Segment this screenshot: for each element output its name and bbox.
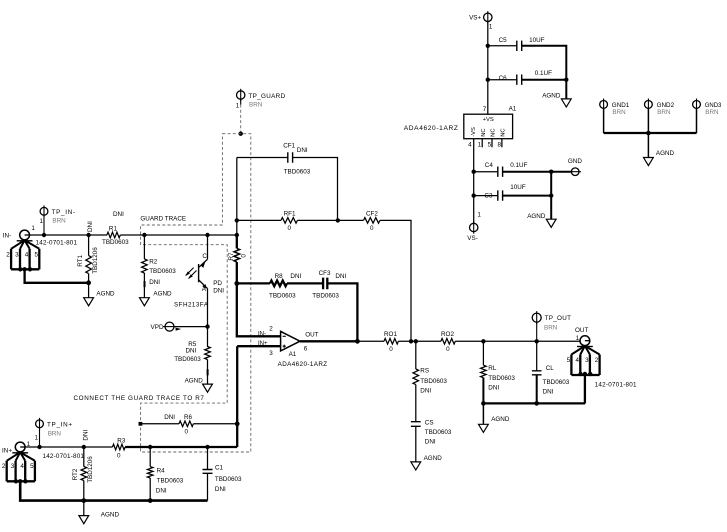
svg-text:OUT: OUT	[305, 331, 318, 338]
junction IN- node / R7	[235, 233, 239, 237]
resistor RT1	[86, 256, 92, 274]
capacitor C6	[517, 75, 522, 85]
svg-text:AGND: AGND	[185, 378, 204, 385]
test point GND1	[600, 101, 608, 109]
wire GND bus	[604, 132, 697, 134]
wire IN+ vertical to op-amp	[236, 346, 238, 447]
wire output to RS	[415, 341, 417, 369]
svg-text:DNI: DNI	[149, 279, 160, 286]
resistor R5	[205, 347, 211, 360]
junction RT1 on rail	[86, 233, 90, 237]
wire IN- node to R7	[236, 235, 238, 248]
wire RS to CS	[415, 385, 417, 422]
stub pin 1 of A1	[481, 139, 483, 148]
stub TP_GUARD	[240, 99, 242, 104]
svg-text:1: 1	[478, 142, 482, 149]
wire R4 to gnd bus	[149, 478, 151, 501]
resistor RO1	[384, 339, 398, 345]
svg-text:BRN: BRN	[52, 217, 66, 224]
connector OUT 142-0701-801	[580, 336, 590, 346]
svg-text:DNI: DNI	[87, 221, 94, 232]
wire CL to output gnd bus	[536, 375, 538, 404]
svg-text:AGND: AGND	[527, 213, 546, 220]
wire RT1 to AGND bus	[88, 274, 90, 283]
svg-text:TBD0603: TBD0603	[425, 429, 452, 436]
resistor RL	[481, 365, 487, 377]
svg-text:R2: R2	[149, 259, 158, 266]
svg-text:DNI: DNI	[297, 147, 308, 154]
svg-text:CS: CS	[425, 419, 434, 426]
wire CF1 rail right	[293, 158, 338, 221]
svg-text:5: 5	[488, 142, 492, 149]
svg-text:5: 5	[30, 463, 34, 470]
ground AGND power top	[561, 99, 571, 107]
wire to AGND IN+	[83, 501, 85, 516]
connector IN+ 142-0701-801	[15, 442, 25, 452]
junction RF1 / CF1 / CF2	[336, 218, 340, 222]
junction R6 / IN+ vertical	[235, 421, 240, 426]
svg-text:GND2: GND2	[657, 102, 675, 109]
junction RT2 / IN+ shell	[81, 498, 86, 503]
capacitor CF3	[323, 278, 327, 290]
svg-text:TBD0603: TBD0603	[215, 476, 242, 483]
junction TP_IN+ on rail	[37, 445, 41, 449]
svg-text:DNI: DNI	[488, 384, 499, 391]
wire CF3 to output	[327, 283, 357, 341]
resistor R4	[147, 467, 153, 478]
ground AGND of R5	[203, 384, 213, 392]
junction OUT shell a	[578, 372, 582, 376]
svg-text:TP_GUARD: TP_GUARD	[248, 93, 285, 100]
svg-text:RO2: RO2	[441, 331, 454, 338]
svg-text:BRN: BRN	[612, 109, 626, 116]
svg-text:C: C	[202, 253, 207, 260]
svg-text:RS: RS	[420, 368, 429, 375]
wire OUT to RO1	[357, 340, 384, 342]
svg-text:BRN: BRN	[705, 109, 719, 116]
svg-text:GUARD TRACE: GUARD TRACE	[140, 216, 186, 223]
svg-text:A1: A1	[509, 106, 517, 113]
svg-text:GND1: GND1	[612, 102, 630, 109]
wire R2 to AGND	[143, 273, 145, 298]
capacitor C3	[498, 190, 503, 200]
svg-text:RT1: RT1	[77, 255, 84, 267]
test point GND3	[693, 101, 701, 109]
resistor R2	[142, 259, 148, 273]
wire to R8	[237, 282, 270, 284]
svg-text:4: 4	[20, 463, 24, 470]
svg-text:0.1UF: 0.1UF	[535, 70, 552, 77]
svg-text:RT2: RT2	[72, 468, 79, 480]
svg-text:AGND: AGND	[424, 455, 443, 462]
stub pin 8 of A1	[501, 139, 503, 148]
svg-text:R8: R8	[275, 273, 284, 280]
svg-text:2: 2	[6, 251, 10, 258]
svg-text:DNI: DNI	[213, 287, 224, 294]
svg-text:DNI: DNI	[290, 273, 301, 280]
svg-text:C3: C3	[484, 192, 493, 199]
resistor RO2	[441, 339, 455, 345]
junction PD on rail	[205, 233, 209, 237]
wire rail to PD cathode	[207, 235, 209, 259]
wire IN- rail left	[29, 234, 107, 236]
svg-text:0: 0	[370, 225, 374, 232]
svg-text:A1: A1	[289, 351, 297, 358]
node -VS / C4	[472, 170, 476, 174]
svg-text:TBD0603: TBD0603	[420, 378, 447, 385]
wire feedback left vertical	[236, 158, 238, 221]
junction IN- shell a	[18, 267, 22, 271]
svg-text:SFH213FA: SFH213FA	[174, 302, 209, 309]
resistor RF1	[281, 218, 297, 224]
junction OUT shell c	[588, 372, 592, 376]
wire R5 to AGND	[207, 360, 209, 384]
wire RO1 to RO2	[398, 340, 441, 342]
junction R4 on gnd bus	[148, 498, 153, 503]
wire to AGND IN-	[88, 283, 90, 298]
svg-text:AGND: AGND	[656, 150, 675, 157]
svg-text:PD: PD	[213, 280, 222, 287]
svg-text:142-0701-801: 142-0701-801	[36, 239, 78, 246]
capacitor CF1	[288, 152, 293, 162]
wire VPD to PD anode	[174, 326, 207, 328]
ground AGND of RT2	[79, 516, 89, 524]
ground AGND of CS	[411, 462, 421, 470]
test point TP_IN+	[36, 420, 44, 428]
op-amp U-A1 power pins box	[464, 114, 513, 139]
capacitor C4	[498, 167, 503, 177]
node -VS / C3	[472, 193, 476, 197]
wire GND1 down	[603, 109, 605, 134]
wire rail to RT2	[83, 447, 85, 467]
wire to C3	[474, 195, 498, 197]
disconnect mark under R2	[144, 281, 146, 287]
wire RF1 rail left	[237, 219, 281, 221]
wire to C6	[488, 79, 517, 81]
capacitor CL	[532, 371, 542, 375]
junction CF2 on output	[409, 339, 413, 343]
guard trace dashed ring	[141, 134, 251, 452]
svg-text:0: 0	[446, 346, 450, 353]
junction VPD / PD / R5	[205, 324, 209, 328]
wire CF1 rail left	[237, 157, 288, 159]
svg-text:142-0701-801: 142-0701-801	[595, 381, 637, 388]
svg-text:C5: C5	[499, 37, 508, 44]
svg-text:8: 8	[497, 142, 501, 149]
svg-text:AGND: AGND	[542, 93, 561, 100]
svg-text:CF1: CF1	[283, 142, 295, 149]
svg-text:4: 4	[575, 357, 579, 364]
arrow of VPD	[176, 328, 182, 331]
wire VS+ to A1 +VS pin	[487, 22, 489, 115]
svg-text:0.1UF: 0.1UF	[510, 162, 527, 169]
svg-text:0: 0	[287, 225, 291, 232]
svg-text:AGND: AGND	[491, 416, 510, 423]
junction R4 on rail	[148, 445, 152, 449]
junction IN+ shell a	[14, 479, 18, 483]
wire C3 to AGND line	[503, 195, 552, 197]
node VS+ / C5	[486, 44, 490, 48]
svg-text:AGND: AGND	[153, 290, 172, 297]
svg-text:TBD0603: TBD0603	[284, 168, 311, 175]
svg-text:BRN: BRN	[544, 324, 558, 331]
junction C5/C6 AGND line	[564, 78, 568, 82]
ground AGND of R2	[140, 298, 150, 306]
photodiode PD SFH213FA symbol	[199, 259, 208, 267]
junction RT1 / IN- shell	[86, 280, 91, 285]
svg-text:BRN: BRN	[657, 109, 671, 116]
svg-text:NC: NC	[491, 128, 497, 136]
svg-text:0: 0	[184, 428, 188, 435]
junction RL on output	[481, 339, 485, 343]
svg-text:C1: C1	[215, 464, 224, 471]
svg-text:TBD1206: TBD1206	[87, 456, 94, 483]
wire -VS to VS-	[473, 139, 475, 224]
junction TP_IN- on rail	[42, 233, 46, 237]
svg-text:C4: C4	[485, 162, 494, 169]
svg-text:RL: RL	[488, 365, 497, 372]
resistor R6	[179, 421, 193, 427]
svg-text:1: 1	[35, 435, 39, 442]
wire CF2 to output rail	[380, 220, 411, 341]
wire to C5	[488, 45, 517, 47]
wire IN+ rail left	[25, 446, 113, 448]
wire output to CL	[536, 341, 538, 370]
test point VS+	[484, 13, 492, 21]
junction feedback left	[235, 218, 239, 222]
svg-text:C6: C6	[499, 75, 508, 82]
test point TP_IN-	[40, 207, 48, 215]
ground AGND of output bus	[479, 424, 489, 432]
stub pin 5 of A1	[491, 139, 493, 148]
junction IN- shell c	[28, 267, 32, 271]
svg-text:DNI: DNI	[420, 388, 431, 395]
guard trace dashed stem from TP_GUARD	[240, 105, 242, 134]
svg-text:TBD0603: TBD0603	[102, 239, 129, 246]
wire to C4	[474, 171, 498, 173]
svg-text:3: 3	[585, 357, 589, 364]
ground AGND of GND bus	[644, 158, 654, 166]
svg-text:NC: NC	[481, 128, 487, 136]
wire output to RL	[482, 341, 484, 365]
svg-text:TBD0603: TBD0603	[312, 293, 339, 300]
stub TP_IN- to rail	[43, 215, 45, 235]
svg-text:VS-: VS-	[467, 235, 478, 242]
svg-text:1: 1	[489, 24, 493, 31]
junction IN+ shell c	[23, 479, 27, 483]
svg-text:4: 4	[468, 142, 472, 149]
svg-text:R4: R4	[157, 467, 166, 474]
svg-text:7: 7	[483, 106, 487, 113]
svg-text:3: 3	[269, 350, 273, 357]
capacitor C5	[517, 41, 522, 51]
svg-text:3: 3	[11, 463, 15, 470]
test point VS-	[470, 223, 478, 231]
svg-text:TP_IN+: TP_IN+	[47, 422, 73, 429]
svg-text:BRN: BRN	[249, 102, 263, 109]
junction R8 branch	[234, 281, 239, 286]
svg-text:R6: R6	[184, 414, 193, 421]
junction RT2 on rail	[82, 445, 86, 449]
wire RO2 to OUT connector	[455, 340, 580, 342]
svg-text:NC: NC	[501, 128, 507, 136]
svg-text:TBD0603: TBD0603	[174, 356, 201, 363]
svg-text:DNI: DNI	[164, 414, 175, 421]
svg-text:TBD0603: TBD0603	[157, 478, 184, 485]
svg-text:TP_IN-: TP_IN-	[52, 209, 76, 216]
junction RL on gnd bus	[481, 401, 486, 406]
svg-text:1: 1	[576, 335, 580, 342]
svg-text:4: 4	[25, 251, 29, 258]
wire feedback to IN- node	[236, 220, 238, 235]
wire R6 to IN+ vertical	[193, 423, 237, 425]
svg-text:GND: GND	[568, 158, 582, 165]
svg-text:TP_OUT: TP_OUT	[545, 315, 572, 322]
resistor RS	[413, 369, 419, 385]
svg-text:2: 2	[2, 463, 6, 470]
resistor R8	[270, 281, 287, 287]
svg-text:RO1: RO1	[384, 331, 397, 338]
test point GND2	[645, 101, 653, 109]
ground AGND power bottom	[546, 219, 556, 227]
junction OUT / CF3	[355, 339, 360, 344]
resistor RT2	[81, 467, 87, 481]
svg-text:VS+: VS+	[469, 15, 481, 22]
wire GND3 down	[696, 109, 698, 134]
wire IN+ shell ground bus	[20, 481, 207, 500]
svg-text:0: 0	[117, 452, 121, 459]
svg-text:DNI: DNI	[543, 389, 554, 396]
wire R8 to CF3	[287, 282, 323, 284]
junction C3 AGND	[549, 193, 553, 197]
disconnect mark under R5	[207, 369, 209, 375]
guard stub square of R6	[139, 422, 143, 426]
test point GND	[571, 168, 579, 176]
stub TP_OUT to rail	[536, 322, 538, 341]
svg-text:142-0701-801: 142-0701-801	[43, 453, 85, 460]
svg-text:1: 1	[236, 102, 240, 109]
svg-text:BRN: BRN	[48, 430, 62, 437]
svg-text:TBD1206: TBD1206	[92, 247, 99, 274]
junction C4 / AGND line	[549, 170, 553, 174]
wire C6 to AGND line	[522, 79, 567, 81]
voltage source VPD	[165, 322, 174, 331]
resistor R1	[107, 232, 120, 238]
svg-text:0: 0	[241, 254, 248, 258]
svg-text:2: 2	[595, 357, 599, 364]
svg-text:CF2: CF2	[366, 210, 378, 217]
wire IN+ into op-amp	[237, 345, 280, 347]
svg-text:RF1: RF1	[284, 210, 296, 217]
wire C1 to gnd bus	[207, 473, 209, 500]
svg-text:1: 1	[31, 225, 35, 232]
connector IN- 142-0701-801	[20, 230, 30, 240]
svg-text:2: 2	[269, 326, 273, 333]
wire CS to AGND	[415, 426, 417, 461]
svg-text:10UF: 10UF	[529, 37, 545, 44]
junction IN+ shell b	[18, 479, 22, 483]
svg-text:TBD0603: TBD0603	[149, 268, 176, 275]
wire guard to R6	[140, 423, 179, 425]
capacitor CS	[411, 422, 421, 427]
wire GND2 down	[647, 109, 649, 134]
wire down to AGND lower power	[550, 172, 552, 219]
svg-text:R7: R7	[228, 252, 235, 261]
stub TP_IN+ to rail	[39, 428, 41, 447]
svg-text:IN+: IN+	[2, 448, 12, 455]
svg-text:R3: R3	[117, 438, 126, 445]
svg-text:+VS: +VS	[483, 117, 494, 123]
svg-text:CF3: CF3	[319, 270, 331, 277]
junction IN- shell b	[22, 267, 26, 271]
junction TP_OUT / CL	[535, 339, 539, 343]
wire IN- shell to AGND bus	[25, 269, 89, 283]
svg-text:3: 3	[15, 251, 19, 258]
svg-text:10UF: 10UF	[510, 184, 526, 191]
junction C1 on rail	[205, 445, 209, 449]
wire RT2 to gnd bus	[83, 481, 85, 501]
capacitor C1	[203, 470, 213, 474]
test point TP_GUARD	[237, 91, 245, 99]
junction OUT shell b	[583, 372, 587, 376]
svg-text:0: 0	[389, 346, 393, 353]
op-amp A1 triangle	[281, 331, 300, 351]
svg-text:6: 6	[304, 345, 308, 352]
wire PD anode down	[207, 289, 209, 327]
wire GND bus to AGND	[647, 133, 649, 157]
svg-text:VPD: VPD	[151, 324, 164, 331]
svg-text:5: 5	[34, 251, 38, 258]
wire rail to RT1	[88, 235, 90, 256]
svg-text:DNI: DNI	[156, 488, 167, 495]
wire rail to R4	[149, 447, 151, 467]
svg-text:R1: R1	[109, 225, 118, 232]
test point TP_OUT	[532, 313, 541, 322]
wire rail to C1	[207, 447, 209, 469]
wire C5 to AGND	[522, 46, 567, 99]
svg-text:DNI: DNI	[335, 273, 346, 280]
wire OUT shell to gnd bus	[584, 374, 586, 403]
resistor CF2 (0 ohm)	[364, 218, 380, 224]
junction CL on gnd bus	[534, 401, 539, 406]
svg-text:DNI: DNI	[82, 430, 89, 441]
ground AGND of RT1	[84, 298, 94, 306]
wire C4 to GND	[503, 171, 572, 173]
node VS+ / C6	[486, 78, 490, 82]
svg-text:IN-: IN-	[258, 332, 266, 338]
svg-text:-VS: -VS	[471, 127, 477, 137]
svg-text:ADA4620-1ARZ: ADA4620-1ARZ	[278, 361, 328, 368]
svg-text:DNI: DNI	[185, 348, 196, 355]
svg-text:1: 1	[39, 218, 43, 225]
wire RL to output gnd bus	[482, 378, 484, 404]
svg-text:1: 1	[477, 211, 481, 218]
wire op-amp OUT	[300, 340, 357, 342]
wire rail to R2	[143, 235, 145, 259]
wire output ground bus	[483, 402, 585, 404]
junction R2 on rail	[142, 233, 146, 237]
svg-text:OUT: OUT	[575, 327, 588, 334]
svg-text:DNI: DNI	[425, 438, 436, 445]
svg-text:ADA4620-1ARZ: ADA4620-1ARZ	[404, 125, 459, 132]
svg-text:DNI: DNI	[113, 211, 124, 218]
svg-text:TBD0603: TBD0603	[543, 379, 570, 386]
svg-text:CL: CL	[546, 365, 555, 372]
svg-text:IN-: IN-	[3, 233, 11, 240]
resistor R7	[234, 248, 240, 261]
svg-text:AGND: AGND	[96, 290, 115, 297]
svg-text:TBD0603: TBD0603	[269, 293, 296, 300]
